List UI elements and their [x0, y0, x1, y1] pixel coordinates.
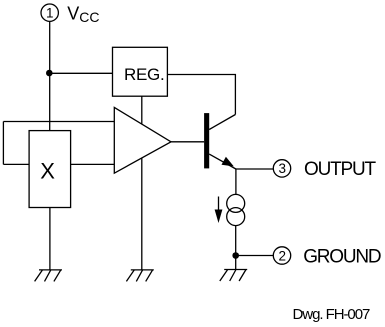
svg-text:3: 3: [279, 161, 287, 176]
ground symbol under amplifier: [126, 270, 153, 282]
svg-text:2: 2: [279, 248, 287, 263]
current source arrowhead: [215, 210, 223, 224]
wire current source to ground: [235, 225, 237, 269]
wire collector diagonal: [209, 115, 235, 130]
svg-text:REG.: REG.: [124, 65, 164, 84]
ground symbol under current source: [220, 270, 247, 282]
wire base amp output to transistor: [171, 141, 204, 143]
wire X box bottom to ground: [49, 208, 51, 270]
pin 2 circle: [273, 247, 290, 264]
wire REG right to collector corner: [167, 75, 235, 115]
transistor emitter arrowhead: [222, 157, 234, 167]
wire upper input line loop top: [3, 121, 114, 123]
wire output horizontal to pin 3: [236, 168, 273, 170]
transistor Q1 base bar: [204, 113, 209, 168]
junction dot at VCC node: [46, 70, 53, 77]
wire loop left vertical: [2, 122, 4, 165]
wire loop bottom stub to X box left: [3, 163, 29, 165]
ground symbol under X box: [35, 270, 62, 282]
current source circle top: [227, 194, 245, 212]
wire VCC vertical pin1 to X box top: [49, 21, 51, 130]
junction dot at ground node: [232, 252, 239, 259]
wire REG bottom to amp top edge: [141, 96, 143, 124]
wire emitter diagonal: [209, 154, 236, 169]
pin 3 circle: [273, 160, 290, 177]
wire junction to REG left: [50, 72, 113, 74]
wire amp bottom edge to ground: [141, 158, 143, 270]
wire ground horizontal to pin 2: [236, 255, 274, 257]
svg-text:X: X: [40, 159, 55, 184]
hall element X box: [29, 131, 71, 208]
svg-text:VCC: VCC: [67, 4, 99, 26]
svg-text:OUTPUT: OUTPUT: [304, 159, 377, 180]
regulator REG box: [113, 47, 168, 96]
svg-text:Dwg. FH-007: Dwg. FH-007: [293, 306, 371, 323]
op-amp amplifier triangle: [114, 107, 171, 173]
wire X box right to amp lower input: [71, 163, 115, 165]
current source circle bottom: [227, 208, 245, 226]
svg-text:1: 1: [46, 6, 54, 21]
current source arrow shaft: [218, 197, 220, 211]
wire emitter junction to current source: [235, 169, 237, 195]
svg-text:GROUND: GROUND: [303, 247, 381, 268]
pin 1 circle: [41, 4, 58, 21]
